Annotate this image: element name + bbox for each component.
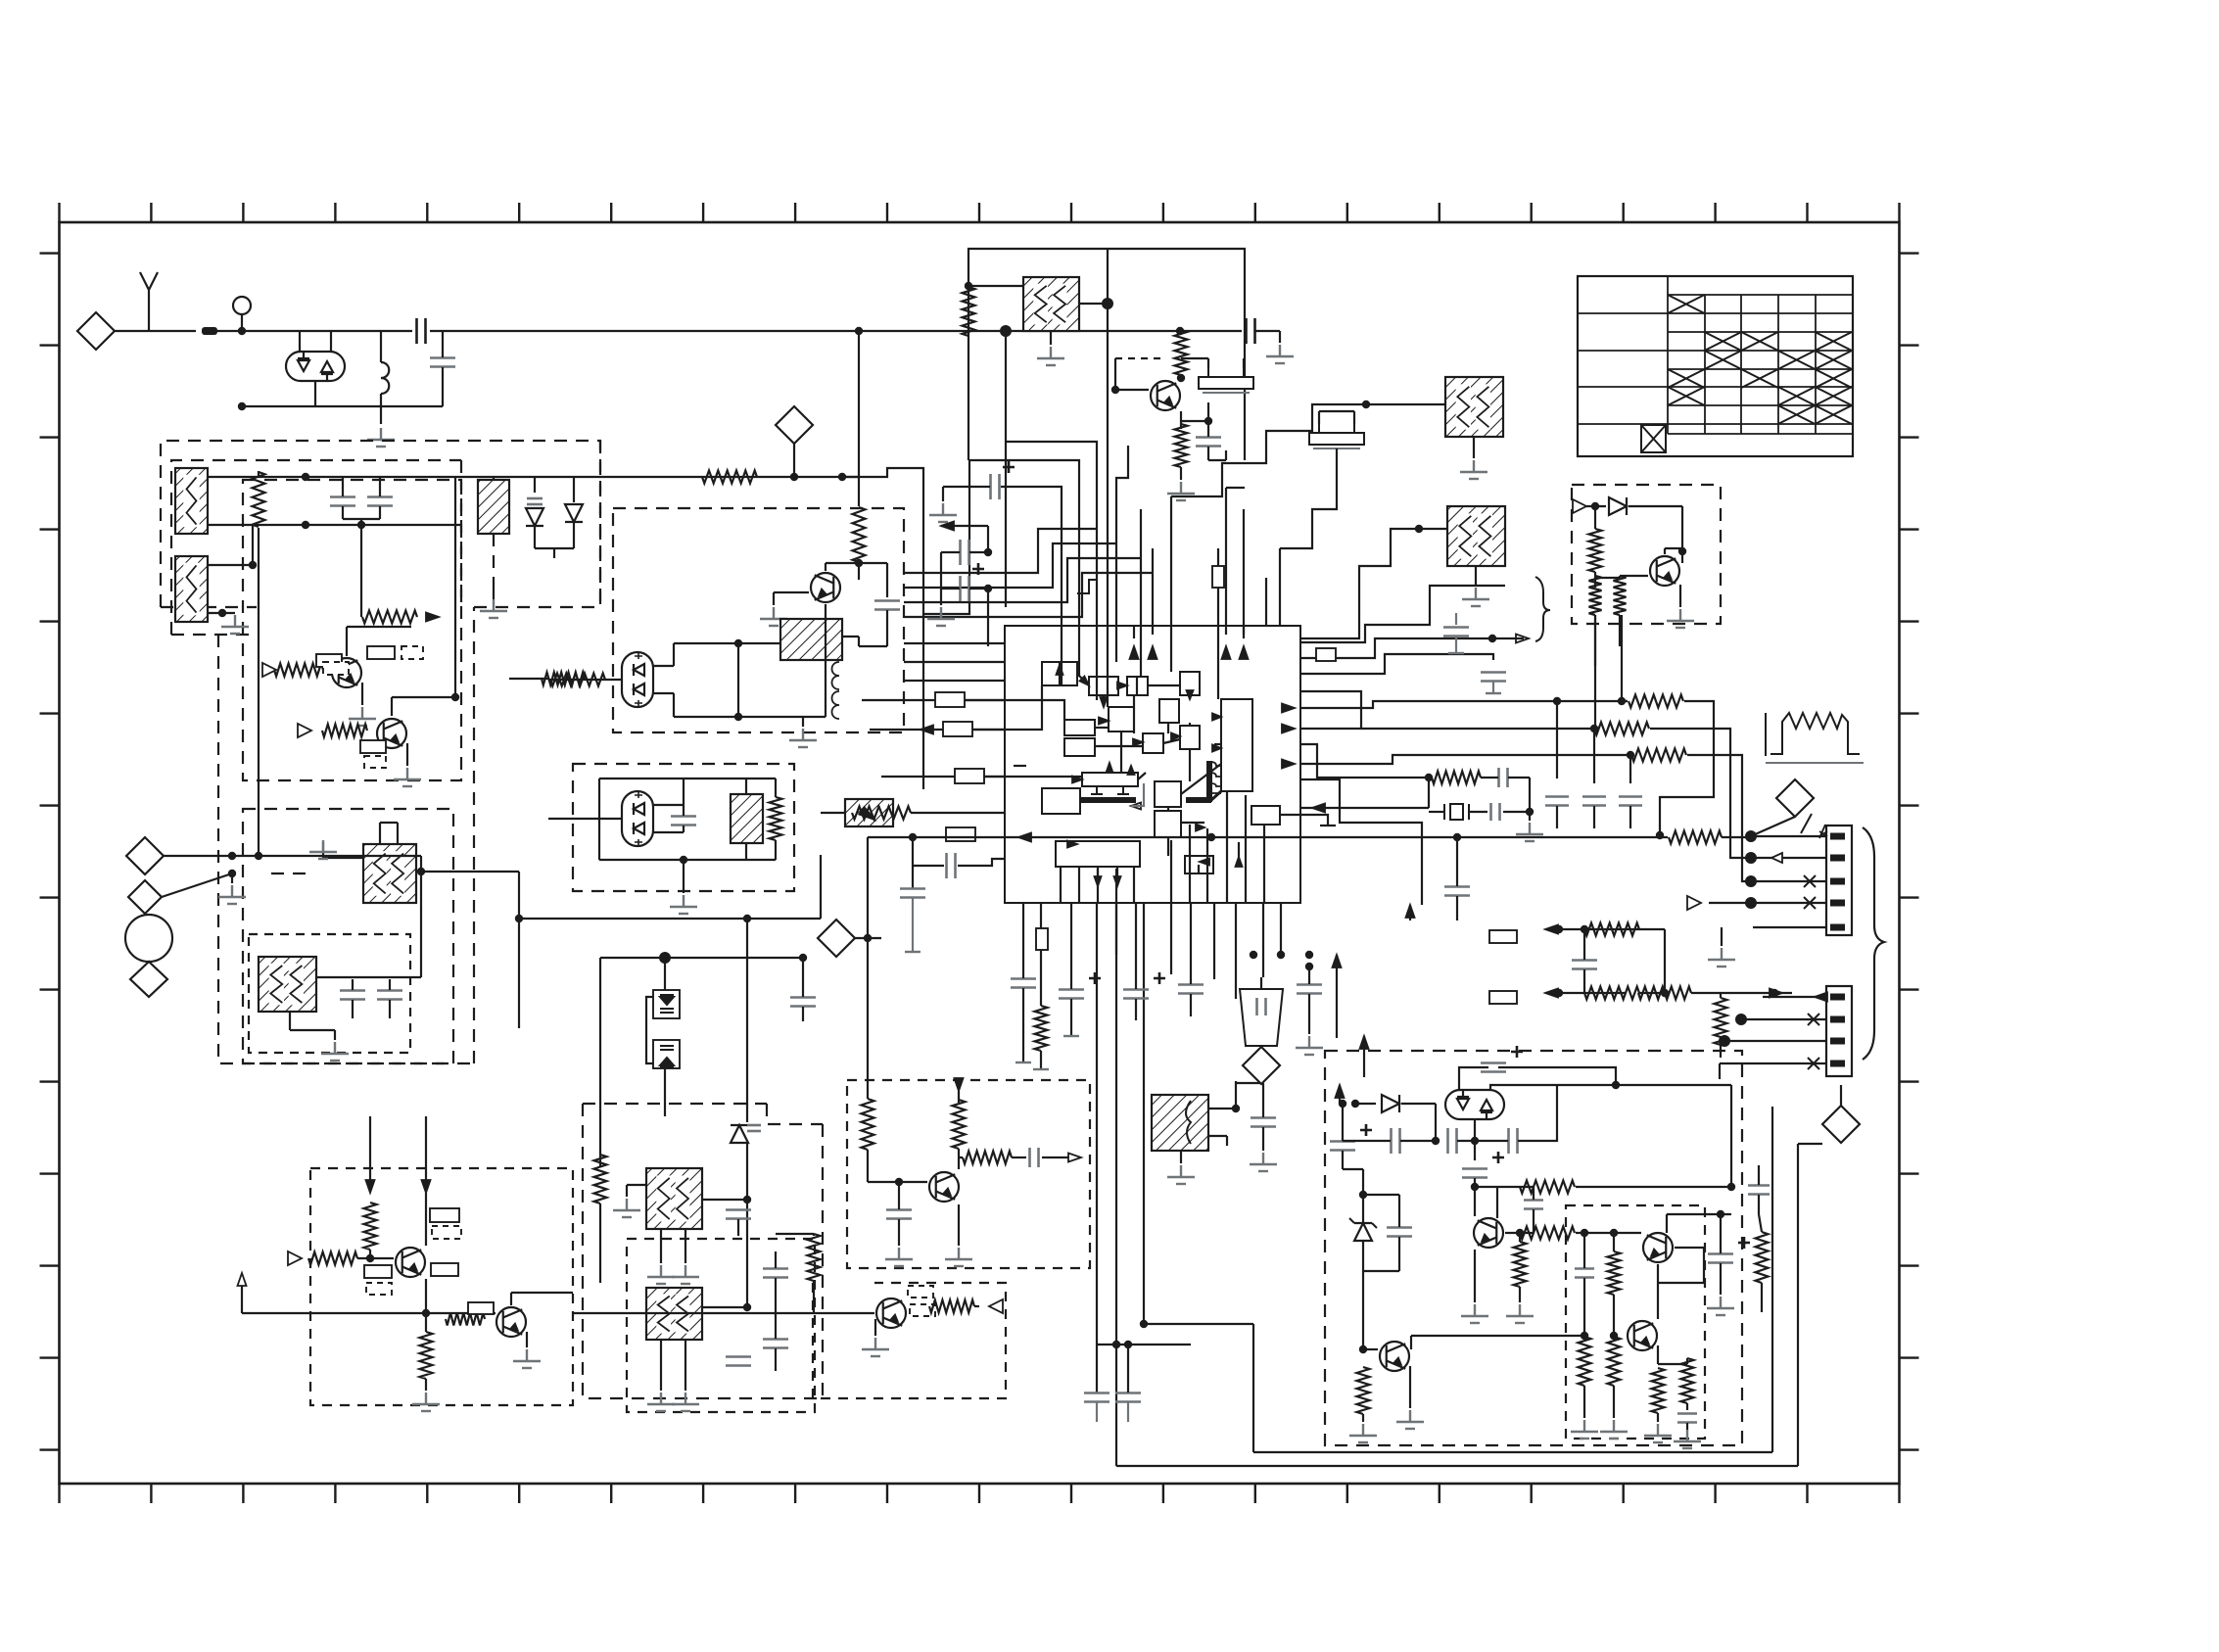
resistor R2 xyxy=(362,611,417,624)
wire xyxy=(1114,358,1116,390)
wire xyxy=(1362,1241,1364,1271)
wire xyxy=(776,1233,814,1235)
signal source triangle xyxy=(1687,896,1701,910)
wire xyxy=(737,643,739,717)
capacitor C18 xyxy=(947,853,956,878)
wire xyxy=(673,693,675,717)
connector J2 (diamond) xyxy=(126,837,164,874)
wire (tuner top rail) xyxy=(208,476,842,478)
ground xyxy=(1506,1304,1534,1323)
wire xyxy=(1180,375,1182,378)
ground xyxy=(412,1392,440,1411)
capacitor C44 xyxy=(1524,1201,1543,1209)
wire xyxy=(599,859,746,861)
node N50 xyxy=(1745,897,1757,909)
arrowhead xyxy=(1171,733,1180,740)
wire xyxy=(314,381,316,406)
wire xyxy=(1127,1402,1129,1422)
wire xyxy=(1508,777,1530,779)
diode D12 (zener) xyxy=(1354,1223,1372,1241)
node N42 xyxy=(1526,808,1534,816)
CN1 pin 3 xyxy=(1830,878,1845,885)
wire xyxy=(573,522,575,548)
wire xyxy=(943,486,990,488)
wire xyxy=(553,548,555,558)
resistor R46 xyxy=(702,471,757,484)
wire xyxy=(1362,1414,1364,1422)
resistor R39 xyxy=(1608,1251,1621,1295)
signal source triangle xyxy=(262,663,276,677)
wire xyxy=(1207,358,1209,368)
wire xyxy=(1342,1151,1344,1169)
wire xyxy=(1657,1345,1659,1364)
arrowhead xyxy=(1212,745,1221,752)
wire xyxy=(969,588,988,590)
wire (IC top lead) xyxy=(1005,442,1097,700)
wire xyxy=(1208,459,1226,461)
capacitor C4 xyxy=(367,497,393,506)
wire xyxy=(1070,955,1072,989)
component outline (dashed) xyxy=(910,1304,935,1316)
diode D8 (varactor) xyxy=(660,1046,674,1067)
wire xyxy=(1556,806,1558,828)
table grid xyxy=(1578,276,1853,434)
wire xyxy=(1180,467,1182,480)
wire (IC internal) xyxy=(1189,825,1191,903)
wire xyxy=(774,591,809,593)
wire (main bus y855) xyxy=(868,836,1668,838)
node N21 xyxy=(1250,951,1257,959)
wire xyxy=(1355,1103,1376,1105)
capacitor C40 xyxy=(1392,1128,1400,1154)
wire xyxy=(858,477,860,506)
component body xyxy=(1212,566,1224,588)
wire xyxy=(1771,1107,1773,1452)
wire xyxy=(1411,1335,1584,1337)
wire xyxy=(518,872,520,919)
wire xyxy=(548,818,622,820)
varactor module body xyxy=(653,990,680,1018)
wire (IC internal) xyxy=(1115,869,1117,903)
arrowhead xyxy=(859,807,874,820)
wire xyxy=(1675,1247,1704,1249)
wire (IC internal) xyxy=(1078,626,1080,677)
connector J5 (diamond) xyxy=(1776,779,1814,817)
signal source triangle xyxy=(989,1299,1003,1313)
wire xyxy=(518,919,520,1028)
capacitor C49 xyxy=(1748,1186,1770,1195)
capacitor C21 xyxy=(1297,985,1322,994)
transistor Q3 xyxy=(811,573,840,602)
wire xyxy=(379,477,381,496)
wire xyxy=(1703,1248,1705,1283)
wire xyxy=(1262,1083,1264,1097)
node N12 xyxy=(417,868,425,875)
wire xyxy=(526,1332,528,1347)
wire xyxy=(1040,1051,1042,1069)
arrowhead xyxy=(1072,777,1082,783)
wire xyxy=(1679,585,1681,607)
capacitor C20 xyxy=(1572,961,1597,969)
wire xyxy=(1262,955,1264,977)
wire xyxy=(802,958,804,997)
wire xyxy=(548,679,622,681)
wire xyxy=(1593,806,1595,828)
wire (IC top lead) xyxy=(1001,487,1062,685)
ground xyxy=(349,707,376,726)
wire xyxy=(1336,448,1338,470)
wire xyxy=(1586,505,1606,507)
wire xyxy=(598,779,600,819)
node N61 xyxy=(799,954,807,962)
capacitor C23 xyxy=(747,1125,761,1131)
wire xyxy=(1366,403,1445,405)
resistor R6 xyxy=(550,674,605,686)
lead end bar xyxy=(1033,1068,1049,1070)
wire (IC internal) xyxy=(1245,795,1247,903)
capacitor C24 xyxy=(726,1210,751,1219)
component outline (dashed) xyxy=(432,1226,461,1239)
shield box (dashed, tall left) xyxy=(218,635,474,1063)
node N81 xyxy=(1516,1229,1524,1237)
capacitor C38 (electrolytic) xyxy=(1481,1046,1523,1072)
diode D7 (varactor) xyxy=(660,995,674,1013)
wire xyxy=(1167,723,1169,733)
wire xyxy=(1650,729,1751,858)
ground xyxy=(670,895,697,914)
node N43 xyxy=(1425,774,1433,781)
wire xyxy=(775,1348,777,1371)
wire xyxy=(493,477,495,480)
node N78 xyxy=(1471,1183,1479,1191)
wire xyxy=(573,477,575,502)
wire (IC bottom lead) xyxy=(1190,903,1192,955)
wire xyxy=(1181,822,1204,824)
wire xyxy=(898,1219,900,1246)
arrowhead xyxy=(1067,841,1077,848)
wire xyxy=(299,331,301,352)
wire xyxy=(420,856,422,872)
transformer T6 xyxy=(780,619,842,660)
ground xyxy=(1266,345,1294,363)
transformer T7 xyxy=(731,794,763,843)
wire xyxy=(1498,1067,1616,1085)
component body xyxy=(430,1208,459,1222)
wire (IC top lead) xyxy=(1279,548,1281,626)
wire xyxy=(1687,755,1751,881)
wire (staircase) xyxy=(904,573,1153,617)
connector J9 (diamond) xyxy=(776,406,813,444)
wire xyxy=(1189,723,1191,726)
wire xyxy=(1243,626,1245,638)
IC function block B5 xyxy=(1159,699,1179,723)
node N18 xyxy=(790,473,798,481)
wire xyxy=(1181,764,1221,794)
arrowhead xyxy=(1196,825,1204,831)
wire xyxy=(425,1379,427,1391)
component body xyxy=(468,1302,494,1314)
ground xyxy=(1571,1420,1598,1439)
node N37 xyxy=(1618,697,1626,705)
transistor Q8 (meter) xyxy=(929,1172,959,1202)
component body xyxy=(946,827,975,841)
wire xyxy=(1657,1283,1659,1319)
node N56 xyxy=(1661,989,1669,997)
wire xyxy=(1236,1082,1263,1084)
connector J7 (diamond) xyxy=(818,920,855,957)
wire (dashed) xyxy=(767,1104,823,1124)
wire xyxy=(347,626,411,628)
capacitor C41 xyxy=(1448,1128,1457,1154)
wire xyxy=(1686,1358,1688,1364)
wire xyxy=(1363,1348,1378,1350)
wire xyxy=(1022,955,1024,978)
switch contact xyxy=(1801,814,1812,833)
IC function block B3 xyxy=(1127,677,1148,695)
wire xyxy=(1398,1195,1400,1227)
wire xyxy=(1180,1151,1182,1163)
ground xyxy=(1600,1420,1628,1439)
wire xyxy=(231,873,233,883)
IC function block B13 xyxy=(1155,781,1181,807)
wire xyxy=(674,642,738,644)
wire xyxy=(391,697,393,716)
wire xyxy=(1664,548,1666,554)
wire xyxy=(1519,1233,1521,1242)
wire (dashed) xyxy=(1115,357,1165,359)
wire xyxy=(1103,695,1105,707)
node N53 xyxy=(1555,925,1563,933)
wire (IC top lead) xyxy=(1152,548,1154,635)
node N26 xyxy=(1000,325,1012,337)
ground xyxy=(309,840,337,859)
wire xyxy=(674,716,738,718)
node N14 xyxy=(855,559,863,567)
node N59 xyxy=(743,915,751,922)
wire xyxy=(987,526,989,552)
wire (staircase) xyxy=(1300,638,1492,658)
lead end bar xyxy=(1063,1035,1079,1037)
wire xyxy=(598,819,600,860)
wire (switch lever) xyxy=(1753,817,1795,835)
transformer T8 (osc) xyxy=(1023,277,1079,331)
node N31 xyxy=(984,548,992,556)
ground xyxy=(1707,1297,1734,1315)
arrowhead xyxy=(1187,690,1194,699)
arrowhead xyxy=(1212,714,1221,721)
wire xyxy=(1190,994,1192,1016)
wire xyxy=(820,855,822,919)
wire (long vertical) xyxy=(1115,903,1117,1466)
wire xyxy=(958,859,1005,866)
wire xyxy=(1059,662,1061,685)
node N6 xyxy=(218,609,226,617)
wire xyxy=(1503,811,1530,813)
ground xyxy=(647,1392,675,1411)
hook stub xyxy=(1077,580,1097,593)
bus (thick) xyxy=(1206,761,1212,802)
wire (IC left lead) xyxy=(904,680,1005,682)
wire xyxy=(1667,1213,1731,1215)
transistor Q4 (osc) xyxy=(1151,381,1180,410)
wire xyxy=(1475,1186,1534,1188)
wire xyxy=(1583,929,1585,960)
wire xyxy=(1619,615,1621,646)
wire xyxy=(775,840,777,860)
wire (IC bottom lead) xyxy=(1115,903,1117,955)
capacitor C30 xyxy=(1251,1118,1276,1127)
wire xyxy=(1181,420,1208,422)
wire (IC bottom lead) xyxy=(1262,903,1264,955)
resistor R37 xyxy=(1514,1242,1527,1287)
wire xyxy=(1262,1097,1264,1117)
coil winding xyxy=(832,662,840,689)
node N55 xyxy=(1555,989,1563,997)
wire xyxy=(1622,700,1628,702)
wire xyxy=(392,696,455,698)
wire (CN2 pin 4) xyxy=(1763,1062,1826,1064)
node N34 xyxy=(1415,525,1423,533)
wire xyxy=(1130,766,1132,773)
waveform symbol xyxy=(1766,713,1864,763)
ceramic resonator X1 xyxy=(1199,368,1253,393)
wire xyxy=(859,645,887,647)
resistor R18 xyxy=(1432,772,1481,784)
transformer T1 (antenna coil) xyxy=(175,468,208,534)
node N28 xyxy=(1177,374,1185,382)
transformer T12 (MPX can) xyxy=(646,1288,702,1340)
wire xyxy=(1136,677,1138,695)
wire xyxy=(1400,1140,1436,1142)
wire xyxy=(599,1204,601,1283)
node N2 xyxy=(238,402,246,410)
node N5 xyxy=(249,561,257,569)
signal source triangle xyxy=(288,1251,302,1265)
resistor R25 xyxy=(308,1252,357,1265)
table X marks xyxy=(1668,295,1852,424)
wire xyxy=(1116,867,1118,876)
wire xyxy=(1594,506,1596,529)
wire (CN2 pin 2) xyxy=(1763,1018,1826,1020)
wire (IC bottom lead) xyxy=(1280,903,1282,955)
wire (IC bottom lead) xyxy=(1135,903,1137,955)
wire xyxy=(1759,1214,1762,1232)
node N57 xyxy=(1770,989,1778,997)
wire (dashed) xyxy=(460,460,462,607)
component body xyxy=(316,654,342,667)
node N23 xyxy=(1305,951,1313,959)
wire xyxy=(1556,1085,1558,1116)
wire xyxy=(1666,1214,1668,1233)
shield box (dashed) top xyxy=(583,1103,767,1105)
wire xyxy=(534,526,536,548)
wire (staircase) xyxy=(1300,779,1422,905)
resistor R12 xyxy=(1589,529,1602,572)
node N33 xyxy=(1362,401,1370,408)
wire xyxy=(1079,303,1108,305)
resistor R32 xyxy=(963,1152,1012,1164)
arrowhead (up) xyxy=(1406,905,1415,918)
wire (IC bottom lead) xyxy=(1235,903,1237,955)
CN2 pin 2 xyxy=(1830,1016,1845,1023)
ground xyxy=(862,1338,889,1356)
arrowhead xyxy=(941,522,954,531)
wire xyxy=(352,1000,354,1018)
wire xyxy=(454,477,456,697)
connector J8 (diamond) xyxy=(1243,1047,1280,1084)
wire xyxy=(330,331,332,352)
wire xyxy=(535,547,574,549)
arrowhead xyxy=(1545,925,1558,934)
IC function block B10 xyxy=(1180,726,1200,749)
wire (IC left lead) xyxy=(862,699,1005,701)
resistor R40 xyxy=(1579,1337,1591,1386)
wire (osc out) xyxy=(416,871,519,873)
resistor R42 xyxy=(1652,1368,1665,1413)
transistor Q6 (AF amp) xyxy=(396,1248,425,1277)
ground xyxy=(394,768,421,786)
wire xyxy=(322,842,324,858)
resistor R5 xyxy=(853,507,866,562)
transistor Q10 (regulator) xyxy=(1474,1218,1503,1248)
wire xyxy=(1135,955,1137,989)
dual diode D4 (ratio det) xyxy=(622,652,653,707)
wire xyxy=(1217,588,1219,626)
node N24 xyxy=(965,282,972,290)
wire xyxy=(825,604,826,717)
inductor L1 xyxy=(381,362,389,394)
wire xyxy=(1475,1140,1508,1142)
wire xyxy=(912,837,914,866)
ground xyxy=(480,599,507,618)
ground xyxy=(760,607,787,626)
wire xyxy=(1235,1081,1237,1109)
bus (thick) xyxy=(1079,797,1136,803)
wire (staircase) xyxy=(1300,654,1493,674)
terminal circle xyxy=(233,297,251,314)
ground xyxy=(1167,1165,1195,1184)
arrowhead (IC out) xyxy=(1282,704,1295,713)
wire xyxy=(360,525,362,617)
arrowhead (up) xyxy=(1336,1085,1345,1098)
wire xyxy=(737,1219,739,1236)
wire (IC top lead) xyxy=(1116,446,1128,626)
wire xyxy=(942,487,944,501)
arrowhead xyxy=(1095,876,1102,886)
wire (staircase) xyxy=(904,558,1141,602)
wire xyxy=(1741,1018,1763,1020)
node N73 xyxy=(1612,1081,1620,1089)
node N17 xyxy=(680,856,687,864)
component outline (dashed) xyxy=(908,1286,933,1298)
wire xyxy=(1660,701,1714,835)
connector J1 (antenna input, diamond) xyxy=(77,312,115,350)
wire (IC top lead) xyxy=(1265,578,1267,626)
wire xyxy=(573,1312,874,1314)
wire xyxy=(1720,1214,1722,1253)
wire xyxy=(1613,1336,1615,1337)
wire xyxy=(600,957,803,959)
wire (CN1 pin 3) xyxy=(1753,880,1826,882)
wire (staircase to T10) xyxy=(1300,529,1419,638)
capacitor C (decoupling) xyxy=(1619,797,1642,806)
component body xyxy=(943,722,972,736)
shield box (dashed) left xyxy=(582,1104,584,1380)
node N67 xyxy=(743,1303,751,1311)
resistor R43 xyxy=(1681,1358,1694,1403)
resistor R21 xyxy=(1638,987,1691,1000)
wire xyxy=(357,1257,394,1259)
